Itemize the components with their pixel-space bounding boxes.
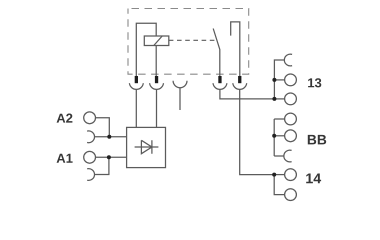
stub wire to 13 circle bbox=[274, 79, 284, 81]
BB bridge socket arc bbox=[284, 150, 292, 162]
NO contact fixed terminal hook bbox=[231, 22, 240, 77]
NO contact blade bbox=[213, 29, 220, 77]
unused socket bbox=[173, 81, 187, 88]
wire coil bottom to pin bbox=[155, 46, 157, 77]
wire coil-right socket to diode box bbox=[156, 89, 158, 127]
unused socket stub wire bbox=[179, 88, 181, 110]
label BB bbox=[308, 135, 326, 145]
stub wire to BB circle bbox=[274, 135, 284, 137]
wire terminal A1 to diode box bbox=[96, 156, 127, 158]
coil diagonal slash bbox=[154, 36, 162, 46]
junction A2 bbox=[107, 135, 111, 139]
relay coil bbox=[144, 36, 169, 46]
junction 13 lower bbox=[272, 97, 276, 101]
coil wire loop bbox=[136, 23, 156, 76]
14 group bracket bbox=[274, 175, 284, 195]
wire terminal A2 to junction bbox=[96, 118, 110, 137]
label 13 bbox=[308, 78, 321, 87]
junction 13 upper bbox=[272, 78, 276, 82]
BB group bracket bbox=[273, 119, 275, 156]
relay pin contact left bbox=[218, 76, 221, 83]
stub wire to 14 circle bbox=[274, 174, 284, 176]
junction A1 bbox=[107, 155, 111, 159]
wire A2 arc to diode box bbox=[95, 136, 127, 138]
relay pin coil right bbox=[155, 76, 158, 83]
terminal 13 lower screw circle bbox=[285, 93, 297, 105]
label A1 bbox=[57, 154, 73, 163]
label 14 bbox=[306, 174, 321, 184]
terminal 13 screw circle bbox=[285, 74, 297, 86]
junction BB bbox=[272, 134, 276, 138]
relay pin contact right bbox=[238, 76, 241, 83]
label A2 bbox=[57, 114, 73, 123]
wire coil-left socket to diode box bbox=[135, 89, 137, 127]
socket under coil right pin bbox=[150, 83, 164, 89]
socket under contact right pin bbox=[233, 83, 247, 89]
protection diode bbox=[135, 140, 159, 153]
socket under coil left pin bbox=[129, 83, 143, 89]
wire contact-right socket to terminal 14 group bbox=[240, 89, 275, 174]
junction 14 bbox=[272, 173, 276, 177]
BB screw circle bbox=[285, 130, 297, 142]
terminal A1 bridge socket arc bbox=[87, 169, 94, 181]
relay pin coil left bbox=[135, 76, 138, 83]
mechanical link (dashed) bbox=[169, 39, 217, 41]
wire contact-left socket to terminal 13 group bbox=[220, 89, 275, 99]
suppressor diode box bbox=[127, 127, 166, 167]
stub wire to BB upper circle bbox=[274, 118, 284, 120]
terminal 14 lower screw circle bbox=[285, 189, 297, 201]
wire BB arc to bracket bbox=[274, 155, 283, 157]
relay module dashed enclosure bbox=[128, 9, 249, 75]
BB upper screw circle bbox=[285, 113, 297, 125]
wire 13 arc to bracket bbox=[274, 60, 284, 99]
terminal 13 bridge socket arc bbox=[284, 54, 292, 66]
terminal 14 screw circle bbox=[285, 169, 297, 181]
socket under contact left pin bbox=[213, 83, 227, 89]
terminal A2 screw circle bbox=[84, 112, 96, 124]
wire A1 arc to junction bbox=[95, 157, 109, 174]
stub wire to 13 lower circle bbox=[274, 98, 284, 100]
terminal A1 screw circle bbox=[84, 151, 96, 163]
terminal A2 bridge socket arc bbox=[87, 131, 94, 143]
